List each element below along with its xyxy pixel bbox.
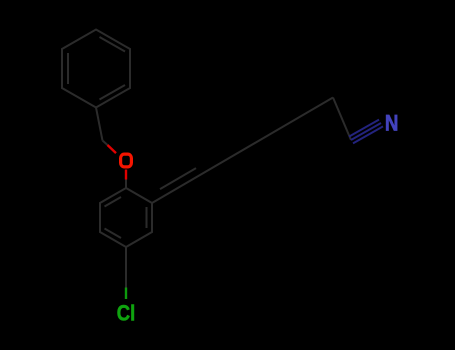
ring 2 aromatic inner line right — [146, 207, 148, 228]
oxygen atom label O — [121, 154, 132, 167]
ring 1 aromatic inner line top-right — [100, 37, 126, 52]
nitrile triple bond center line — [351, 123, 381, 140]
ring 2 aromatic inner line bottom-left — [105, 229, 122, 239]
bond O to ring2, oxygen half (red) — [125, 170, 127, 180]
bond ring2 to Cl, carbon half (gray) — [125, 247, 127, 288]
bond ring1 C to benzylic CH2 — [96, 108, 103, 141]
bond ring2 to Cl, chlorine half (green) — [125, 288, 127, 300]
ring 1 aromatic inner line bottom-right — [100, 85, 126, 100]
chain main line from ring2 to kink — [152, 98, 333, 204]
svg-text:N: N — [385, 112, 399, 136]
svg-text:Cl: Cl — [117, 302, 135, 326]
bond CH2 to O, carbon half (gray) — [103, 141, 108, 146]
benzene ring 1 (benzyl phenyl) outline — [62, 30, 130, 108]
bond kink to nitrile carbon — [333, 98, 351, 141]
bond CH2 to O, oxygen half (red) — [108, 145, 117, 153]
nitrile triple bond upper line — [349, 120, 379, 137]
double bond tick parallel to chain near ring2 — [160, 168, 196, 189]
nitrile triple bond lower line — [353, 126, 383, 143]
ring 1 aromatic inner line left — [67, 53, 69, 84]
benzene ring 2 (chlorophenyl) outline — [100, 188, 152, 247]
ring 2 aromatic inner line top-left — [105, 197, 122, 207]
bond O to ring2, carbon half (gray) — [125, 180, 127, 189]
